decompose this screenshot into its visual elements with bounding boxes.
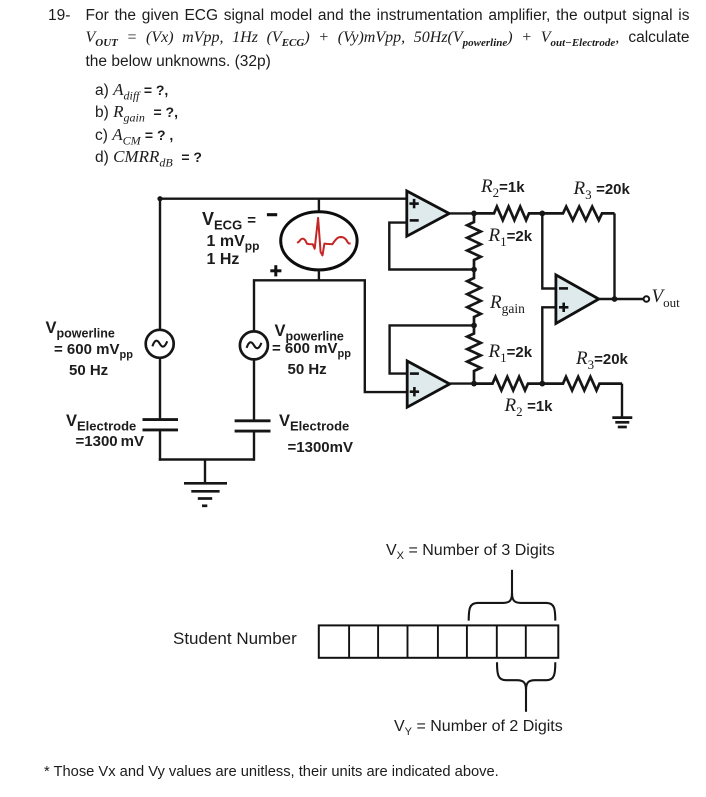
source VECG (ellipse with ECG waveform) <box>281 212 357 270</box>
capacitor VElectrode left <box>143 418 179 421</box>
label R1=2k top <box>489 226 533 245</box>
label R1=2k bottom <box>489 342 533 361</box>
item d <box>95 148 202 166</box>
wire R3 bottom to ground <box>621 384 623 418</box>
brace under last 2 boxes (Vy) <box>497 662 555 690</box>
label VECG value <box>202 210 256 228</box>
resistor R3 bottom =20k (horizontal) <box>542 377 622 391</box>
student number boxes (8 cells) <box>319 625 559 657</box>
problem statement line 3 <box>86 54 271 70</box>
wire node R2R3 bottom to U3 + input <box>542 307 556 383</box>
label Vout <box>652 287 680 306</box>
label Vpowerline left <box>46 320 115 337</box>
label R2=1k top <box>481 177 525 196</box>
ECG minus terminal mark <box>267 213 277 216</box>
resistor R1 top =2k (vertical) <box>467 213 481 269</box>
wire R3 top to U3 output <box>613 213 615 299</box>
label Vpowerline middle <box>275 323 344 340</box>
wire ECG bottom stem <box>318 270 320 282</box>
brace stem Vy <box>525 688 527 712</box>
item c <box>95 126 173 144</box>
op-amp U2 (bottom input buffer) <box>407 361 450 407</box>
wire ECG stem to top rail <box>318 199 320 213</box>
ECG waveform (red) <box>297 218 350 256</box>
item b <box>95 103 178 121</box>
ground main (sources) <box>204 460 206 484</box>
wire U1 feedback (- input to node A) <box>389 223 472 270</box>
label Vy = Number of 2 Digits <box>394 719 563 735</box>
wire middle source to electrode cap <box>253 359 255 420</box>
capacitor VElectrode middle <box>235 419 271 422</box>
problem statement line 1 <box>48 8 70 24</box>
source Vpowerline middle (sine source) <box>240 331 268 359</box>
ground right (R3 bottom) <box>612 416 632 419</box>
wire middle cap to bottom rail <box>253 431 255 461</box>
label VElectrode left <box>66 413 136 430</box>
node B (Rgain/R1 bottom/U2 feedback) <box>471 323 477 329</box>
op-amp U3 (difference output) <box>556 275 599 324</box>
wire node R2R3 top to U3 - input <box>542 213 556 288</box>
label R3=20k top <box>574 179 630 198</box>
item a <box>95 81 168 99</box>
wire U1 output <box>449 212 475 214</box>
brace over last 3 boxes (Vx) <box>469 593 556 620</box>
wire top rail from left corner to U1 + input <box>160 199 408 330</box>
node U3 output / R3 top <box>612 296 618 302</box>
resistor R2 top =1k (horizontal) <box>474 207 542 221</box>
wire left source to electrode cap <box>159 358 161 419</box>
terminal Vout (open circle) <box>644 296 650 302</box>
resistor Rgain (vertical) <box>467 270 481 326</box>
resistor R2 bottom =1k (horizontal) <box>474 377 542 391</box>
wire middle horizontal under ECG <box>254 280 408 392</box>
node U1 out / R2 top <box>471 211 477 217</box>
wire bottom rail <box>159 458 255 460</box>
wire U2 feedback (- input to node B) <box>390 325 472 373</box>
wire U2 output <box>450 382 476 384</box>
brace stem Vx <box>511 570 513 595</box>
label Vx = Number of 3 Digits <box>386 543 555 559</box>
node top-left corner <box>157 196 162 201</box>
label Rgain <box>490 293 525 312</box>
wire left cap to bottom rail <box>159 430 161 461</box>
source Vpowerline left (sine source) <box>146 330 174 358</box>
resistor R3 top =20k (horizontal) <box>542 207 614 221</box>
label Student Number <box>173 630 297 647</box>
node U2 out / R2 bottom <box>471 381 477 387</box>
ECG plus terminal mark <box>270 269 281 272</box>
label VElectrode middle <box>279 413 349 430</box>
label R2=1k bottom <box>505 396 553 415</box>
label R3=20k bottom <box>576 349 628 368</box>
problem statement line 2 (formula) <box>86 30 690 46</box>
node R2/R3 top <box>539 211 545 217</box>
op-amp U1 (top input buffer) <box>407 191 449 236</box>
node R2/R3 bottom <box>539 381 545 387</box>
wire U3 output to Vout terminal <box>599 298 644 300</box>
resistor R1 bottom =2k (vertical) <box>467 325 481 383</box>
footnote <box>44 765 499 780</box>
node A (R1/Rgain/U1 feedback) <box>471 267 477 273</box>
